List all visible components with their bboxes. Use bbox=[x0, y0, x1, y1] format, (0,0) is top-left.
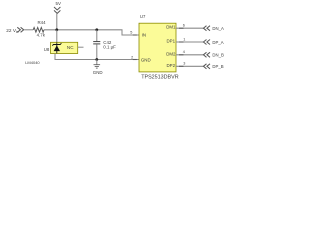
svg-text:4: 4 bbox=[183, 50, 185, 54]
wire DP2 to DP_B bbox=[176, 65, 203, 67]
port connector DN_A chevrons bbox=[203, 26, 210, 31]
op U7 body box bbox=[139, 23, 176, 72]
svg-text:3: 3 bbox=[183, 62, 185, 66]
svg-text:DN_B: DN_B bbox=[212, 53, 224, 58]
wire junction down to U8 bbox=[56, 30, 58, 43]
pin dash IN bbox=[133, 34, 137, 36]
svg-text:5: 5 bbox=[130, 31, 132, 35]
svg-text:DP2: DP2 bbox=[167, 63, 176, 68]
svg-text:0.1 µF: 0.1 µF bbox=[103, 44, 116, 49]
junction dot cap top bbox=[95, 28, 98, 31]
svg-text:DP1: DP1 bbox=[167, 39, 176, 44]
svg-text:U8: U8 bbox=[44, 47, 50, 52]
ground bbox=[93, 60, 103, 75]
svg-text:6: 6 bbox=[183, 24, 185, 28]
wire U8 bottom to ground rail to U7 GND bbox=[55, 54, 139, 60]
svg-text:5V: 5V bbox=[56, 1, 61, 6]
pin dash DM1 bbox=[179, 27, 184, 29]
svg-text:DM2: DM2 bbox=[166, 51, 176, 56]
svg-text:NC: NC bbox=[67, 45, 74, 50]
svg-text:DP_B: DP_B bbox=[212, 64, 223, 69]
junction dot A bbox=[55, 28, 58, 31]
port connector DP_A chevrons bbox=[203, 40, 210, 45]
wire R44 to junction to cap to jog to U7 IN bbox=[44, 30, 139, 35]
svg-text:DN_A: DN_A bbox=[212, 26, 224, 31]
zener diode D (LM4040) bbox=[52, 43, 61, 54]
U8 body box bbox=[51, 42, 78, 53]
svg-text:4.7k: 4.7k bbox=[37, 33, 46, 38]
pin dash DP1 bbox=[179, 41, 184, 43]
port connector DP_B chevrons bbox=[203, 64, 210, 69]
power 5V symbol bbox=[54, 1, 61, 14]
svg-text:R44: R44 bbox=[38, 20, 47, 25]
wire DM1 to DN_A bbox=[176, 27, 203, 29]
wire DM2 to DN_B bbox=[176, 54, 203, 56]
pin dash DM2 bbox=[179, 54, 184, 56]
port connector 22Vin chevrons bbox=[17, 27, 23, 32]
svg-text:2: 2 bbox=[131, 56, 133, 60]
svg-text:TPS2513DBVR: TPS2513DBVR bbox=[141, 74, 179, 80]
junction dot cap bottom bbox=[95, 58, 98, 61]
svg-text:GND: GND bbox=[141, 58, 151, 63]
wire DP1 to DP_A bbox=[176, 41, 203, 43]
svg-text:DM1: DM1 bbox=[166, 25, 176, 30]
resistor R44 bbox=[33, 28, 44, 33]
svg-text:GND: GND bbox=[93, 70, 103, 75]
pin dash GND bbox=[133, 59, 137, 61]
svg-text:1: 1 bbox=[183, 37, 185, 41]
capacitor C42 bbox=[93, 30, 100, 60]
port connector DN_B chevrons bbox=[203, 52, 210, 57]
pin stub NC bbox=[78, 46, 84, 48]
wire 22Vin to R44 bbox=[24, 29, 33, 31]
wire 5V down to junction bbox=[56, 14, 58, 30]
svg-text:DP_A: DP_A bbox=[212, 40, 223, 45]
svg-text:U7: U7 bbox=[140, 14, 146, 19]
pin dash DP2 bbox=[179, 65, 184, 67]
svg-text:IN: IN bbox=[142, 32, 146, 37]
svg-text:LM4040: LM4040 bbox=[25, 60, 40, 65]
